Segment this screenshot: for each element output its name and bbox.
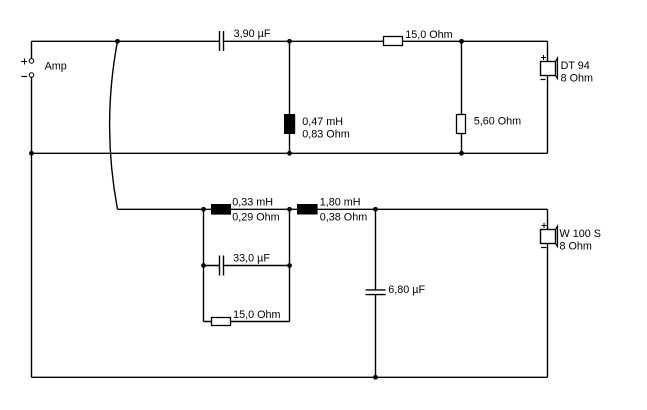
svg-text:Amp: Amp bbox=[45, 61, 67, 73]
svg-text:3,90 µF: 3,90 µF bbox=[234, 28, 271, 40]
svg-text:6,80 µF: 6,80 µF bbox=[388, 284, 425, 296]
svg-text:0,83 Ohm: 0,83 Ohm bbox=[302, 129, 349, 141]
svg-text:0,47 mH: 0,47 mH bbox=[302, 116, 343, 128]
svg-text:W 100 S: W 100 S bbox=[560, 228, 601, 240]
svg-text:5,60 Ohm: 5,60 Ohm bbox=[474, 116, 521, 128]
svg-text:DT 94: DT 94 bbox=[561, 60, 590, 72]
svg-text:1,80 mH: 1,80 mH bbox=[320, 197, 361, 209]
svg-text:15,0 Ohm: 15,0 Ohm bbox=[233, 309, 280, 321]
svg-text:0,29 Ohm: 0,29 Ohm bbox=[232, 212, 279, 224]
svg-text:0,33 mH: 0,33 mH bbox=[232, 197, 273, 209]
svg-text:8 Ohm: 8 Ohm bbox=[561, 73, 593, 85]
svg-text:33,0 µF: 33,0 µF bbox=[233, 252, 270, 264]
svg-text:0,38 Ohm: 0,38 Ohm bbox=[320, 212, 367, 224]
svg-text:8 Ohm: 8 Ohm bbox=[560, 240, 592, 252]
svg-text:15,0 Ohm: 15,0 Ohm bbox=[405, 29, 452, 41]
